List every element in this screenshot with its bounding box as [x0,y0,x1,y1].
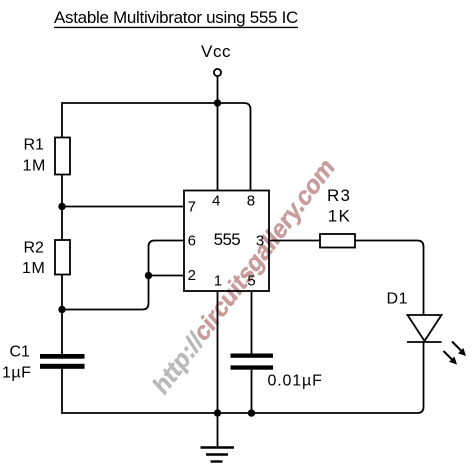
svg-text:7: 7 [188,199,196,216]
svg-text:0.01µF: 0.01µF [268,373,323,390]
wire pin 7 [62,206,184,208]
svg-text:Astable Multivibrator using 55: Astable Multivibrator using 555 IC [54,8,298,27]
wire R2 to node B [61,275,63,310]
wire top rail [62,102,218,104]
label R1 1M [23,137,46,175]
watermark http://circuitsgallery.com [149,153,339,401]
svg-text:8: 8 [247,193,255,210]
resistor R1 [55,138,70,175]
wire C1 to bottom rail [61,369,63,414]
svg-text:1K: 1K [328,207,351,226]
capacitor C1 [40,354,85,369]
svg-text:1M: 1M [23,158,46,175]
wire pin 6 [62,241,184,310]
wire pin 3 [269,240,320,242]
wire pin 1 to ground rail [217,291,219,413]
node pin2-pin6 junction [145,272,152,279]
LED D1 [407,315,442,342]
node A [58,203,65,210]
resistor R3 [320,234,355,248]
label R2 1M [22,240,45,278]
wire node A to R2 [61,207,63,241]
wire pin 5 to C2 [251,291,253,354]
Vcc terminal [214,69,221,76]
node B [58,306,65,313]
title [54,8,298,27]
svg-text:1M: 1M [22,260,45,277]
node ground junction [214,409,221,416]
wire bottom rail [62,407,424,413]
svg-text:R1: R1 [24,137,45,154]
svg-text:6: 6 [188,233,196,250]
ground [201,413,235,462]
wire Vcc stem [217,77,219,104]
svg-text:4: 4 [212,193,220,210]
wire pin 8 [218,103,251,191]
svg-text:D1: D1 [387,291,409,308]
svg-text:555: 555 [214,230,241,249]
label R3 1K [327,186,351,226]
IC U1 555 [184,191,269,292]
wire node B to C1 [61,310,63,355]
capacitor C2 0.01uF [231,354,274,370]
resistor R2 [55,240,70,275]
wire LED to bottom rail [423,342,425,407]
wire R3 to LED [355,241,424,316]
node C2 junction [248,409,255,416]
label C1 1uF [2,343,31,381]
svg-text:R3: R3 [327,186,351,205]
svg-text:C1: C1 [10,343,31,360]
svg-text:Vcc: Vcc [201,42,231,61]
LED light arrows [444,342,467,365]
wire R1 to node A [61,175,63,207]
svg-text:R2: R2 [24,240,45,257]
wire C2 to bottom rail [251,370,253,413]
svg-text:1µF: 1µF [2,365,31,382]
wire left rail upper [61,102,63,138]
wire pin 4 [217,103,219,191]
svg-text:2: 2 [188,267,196,284]
wire pin 2 [149,275,185,277]
node Vcc junction [214,99,221,106]
